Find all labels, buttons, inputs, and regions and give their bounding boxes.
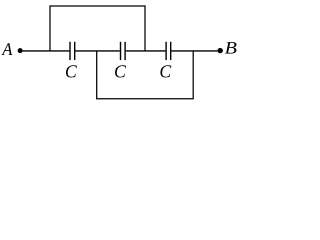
capacitor C2 value label xyxy=(115,65,126,77)
capacitor C3 value label xyxy=(160,65,171,77)
capacitor C2 plates xyxy=(121,42,126,60)
wire: bottom bypass loop from junction x=96.7 down and across to junction x=193.2 xyxy=(97,51,194,99)
wire: capacitor C3 right plate to B node xyxy=(171,50,220,52)
capacitor C1 plates xyxy=(70,42,75,60)
wire: capacitor C2 right plate to capacitor C3 left plate xyxy=(126,50,166,52)
node A label xyxy=(1,43,12,55)
node A terminal dot xyxy=(18,48,23,53)
wire: A node to capacitor C1 left plate xyxy=(20,50,69,52)
capacitor C1 value label xyxy=(66,65,77,77)
wire: top bypass loop from junction x=50 up and across to junction x=145 xyxy=(50,6,145,51)
wire: capacitor C1 right plate to capacitor C2 left plate xyxy=(75,50,119,52)
capacitor C3 plates xyxy=(166,42,171,60)
node B terminal dot xyxy=(218,48,223,53)
node B label xyxy=(225,42,237,53)
